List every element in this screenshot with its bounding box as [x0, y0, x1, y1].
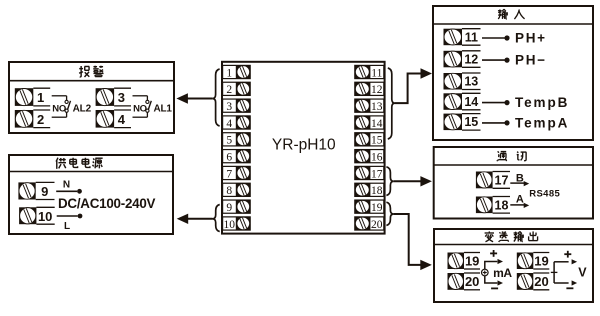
svg-text:20: 20 — [371, 219, 383, 231]
svg-text:RS485: RS485 — [529, 188, 560, 199]
svg-text:9: 9 — [41, 184, 48, 199]
svg-text:12: 12 — [464, 52, 478, 66]
svg-text:13: 13 — [371, 101, 383, 113]
svg-text:N: N — [63, 179, 70, 190]
svg-text:17: 17 — [371, 168, 383, 180]
svg-text:19: 19 — [534, 254, 548, 269]
svg-text:V: V — [578, 266, 587, 280]
svg-text:5: 5 — [226, 135, 232, 147]
svg-text:AL2: AL2 — [73, 104, 92, 115]
svg-text:1: 1 — [37, 90, 44, 105]
svg-text:TempA: TempA — [515, 115, 569, 130]
svg-text:YR-pH10: YR-pH10 — [272, 137, 336, 154]
svg-text:19: 19 — [371, 202, 383, 214]
svg-text:15: 15 — [371, 135, 383, 147]
svg-text:11: 11 — [371, 67, 382, 79]
svg-text:DC/AC100-240V: DC/AC100-240V — [58, 196, 156, 211]
svg-text:mA: mA — [493, 266, 512, 280]
svg-text:13: 13 — [464, 75, 478, 89]
svg-text:2: 2 — [37, 112, 44, 127]
svg-text:18: 18 — [371, 185, 383, 197]
svg-text:20: 20 — [465, 274, 479, 289]
svg-text:14: 14 — [464, 95, 478, 109]
svg-text:3: 3 — [118, 90, 125, 105]
svg-text:10: 10 — [224, 219, 236, 231]
svg-text:14: 14 — [371, 118, 383, 130]
svg-text:B: B — [516, 173, 524, 185]
svg-text:NO: NO — [133, 103, 147, 114]
svg-text:11: 11 — [465, 30, 478, 44]
svg-text:1: 1 — [226, 67, 232, 79]
svg-text:4: 4 — [118, 112, 126, 127]
svg-text:15: 15 — [464, 115, 478, 129]
svg-text:12: 12 — [371, 84, 383, 96]
svg-text:20: 20 — [534, 274, 548, 289]
svg-text:7: 7 — [226, 168, 232, 180]
svg-text:A: A — [516, 194, 524, 206]
svg-text:NO: NO — [52, 103, 66, 114]
svg-text:L: L — [64, 221, 70, 232]
svg-text:10: 10 — [38, 209, 52, 224]
svg-text:17: 17 — [495, 173, 509, 187]
svg-text:3: 3 — [226, 101, 232, 113]
svg-text:2: 2 — [226, 84, 232, 96]
svg-text:PH+: PH+ — [515, 31, 547, 46]
svg-text:4: 4 — [226, 118, 232, 130]
svg-text:6: 6 — [226, 152, 232, 164]
svg-text:TempB: TempB — [515, 95, 569, 110]
svg-text:PH−: PH− — [515, 53, 547, 68]
svg-text:AL1: AL1 — [153, 104, 172, 115]
svg-text:18: 18 — [495, 198, 509, 212]
svg-text:16: 16 — [371, 152, 383, 164]
svg-text:8: 8 — [226, 185, 232, 197]
svg-text:9: 9 — [226, 202, 232, 214]
svg-text:19: 19 — [465, 254, 479, 269]
